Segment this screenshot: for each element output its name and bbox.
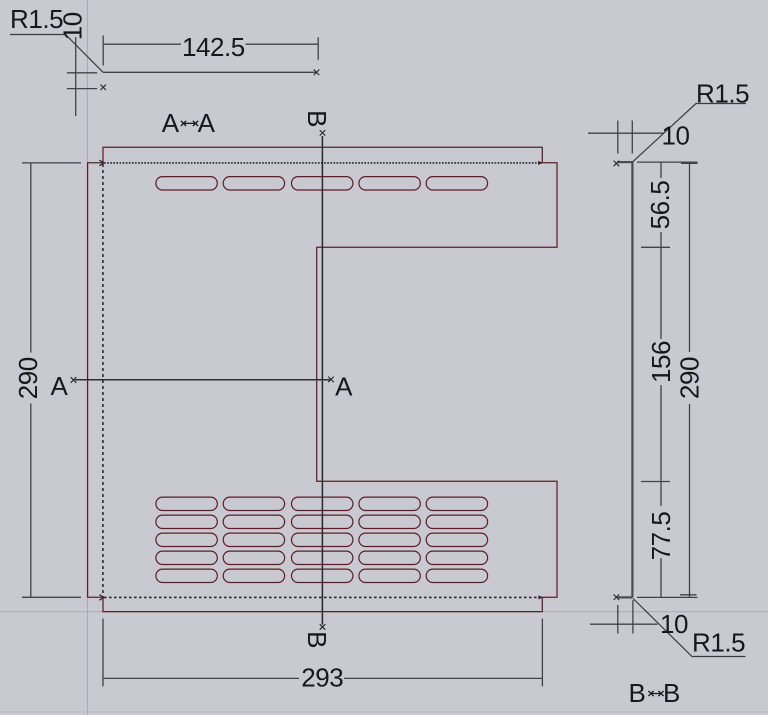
grid vent slot r4c4 [359,551,420,564]
top vent slot 4 [359,177,420,190]
grid vent slot r2c4 [359,515,420,528]
side view bottom flange [617,596,632,598]
svg-text:B: B [302,631,332,648]
svg-text:10: 10 [58,12,88,40]
leader R1.5 top-right [632,104,746,163]
title A-A double arrow [181,121,198,126]
svg-text:R1.5: R1.5 [10,4,63,34]
bend arrow top-left [99,160,104,166]
svg-text:290: 290 [674,357,704,399]
faint construction line horizontal mid [0,611,768,613]
top vent slot 3 [292,177,353,190]
grid vent slot r1c1 [156,497,217,510]
grid vent slot r1c5 [426,497,487,510]
grid vent slot r5c1 [156,569,217,582]
svg-text:293: 293 [301,663,343,693]
grid vent slot r4c2 [223,551,284,564]
dim 142.5 top: line, ticks, ref line [103,36,318,73]
svg-text:R1.5: R1.5 [696,79,749,109]
grid vent slot r4c3 [292,551,353,564]
grid vent slot r4c1 [156,551,217,564]
dim 10 top-right: line and ticks [588,121,664,154]
svg-text:142.5: 142.5 [182,32,245,62]
dim 290 left: line and ticks [22,163,81,597]
grid vent slot r1c2 [223,497,284,510]
section line A horizontal [75,379,331,381]
svg-text:A: A [51,371,69,401]
side view top flange [617,161,632,163]
svg-text:A: A [335,372,353,402]
faint construction line vertical [86,0,88,715]
dim 293 bottom: line, ticks [103,619,542,687]
grid vent slot r2c2 [223,515,284,528]
side view web (section B-B) [631,162,633,597]
svg-text:290: 290 [13,357,43,399]
bend line top (dashed) [104,162,542,164]
bend line left (dashed) [102,164,104,597]
dim 10 bottom-right: line and ticks [590,600,658,634]
side view extension lines [637,162,698,597]
grid vent slot r2c5 [426,515,487,528]
grid vent slot r3c3 [292,533,353,546]
grid vent slot r5c5 [426,569,487,582]
grid vent slot r3c4 [359,533,420,546]
grid vent slot r3c1 [156,533,217,546]
svg-text:A: A [162,108,180,138]
title B-B double arrow [648,691,663,696]
grid vent slot r1c3 [292,497,353,510]
dim 10 top-left: line and ticks [67,37,97,116]
svg-text:B: B [663,678,680,708]
grid vent slot r3c5 [426,533,487,546]
svg-text:10: 10 [660,609,688,639]
svg-text:156: 156 [646,341,676,383]
svg-text:R1.5: R1.5 [692,628,745,658]
grid vent slot r4c5 [426,551,487,564]
section line B vertical [321,136,323,625]
part outline (flat pattern) [88,147,557,611]
svg-text:B: B [629,678,646,708]
svg-text:A: A [198,108,216,138]
grid vent slot r5c4 [359,569,420,582]
svg-text:77.5: 77.5 [646,512,676,561]
grid vent slot r2c3 [292,515,353,528]
svg-text:B: B [302,110,332,127]
top vent slot 2 [223,177,284,190]
grid vent slot r3c2 [223,533,284,546]
bottom vent slot grid 5 columns x 5 rows [156,497,488,582]
bend arrow bottom-right [538,595,542,599]
dimension reference x marks [71,70,620,630]
svg-text:10: 10 [661,121,689,151]
dim 290 right: line [689,162,691,597]
grid vent slot r5c2 [223,569,284,582]
bend arrow top-right [538,161,542,165]
bend arrow bottom-left [99,595,104,601]
bend line bottom (dashed) [104,596,542,598]
grid vent slot r5c3 [292,569,353,582]
leader R1.5 bottom-right [633,599,746,657]
grid vent slot r1c4 [359,497,420,510]
leader R1.5 top-left [10,35,103,73]
svg-text:56.5: 56.5 [645,181,675,230]
dim chain 56.5/156/77.5: line and ticks [641,162,670,597]
grid vent slot r2c1 [156,515,217,528]
top vent slot 1 [156,177,217,190]
top vent slot 5 [426,177,487,190]
faint construction line horizontal bottom [0,711,768,713]
